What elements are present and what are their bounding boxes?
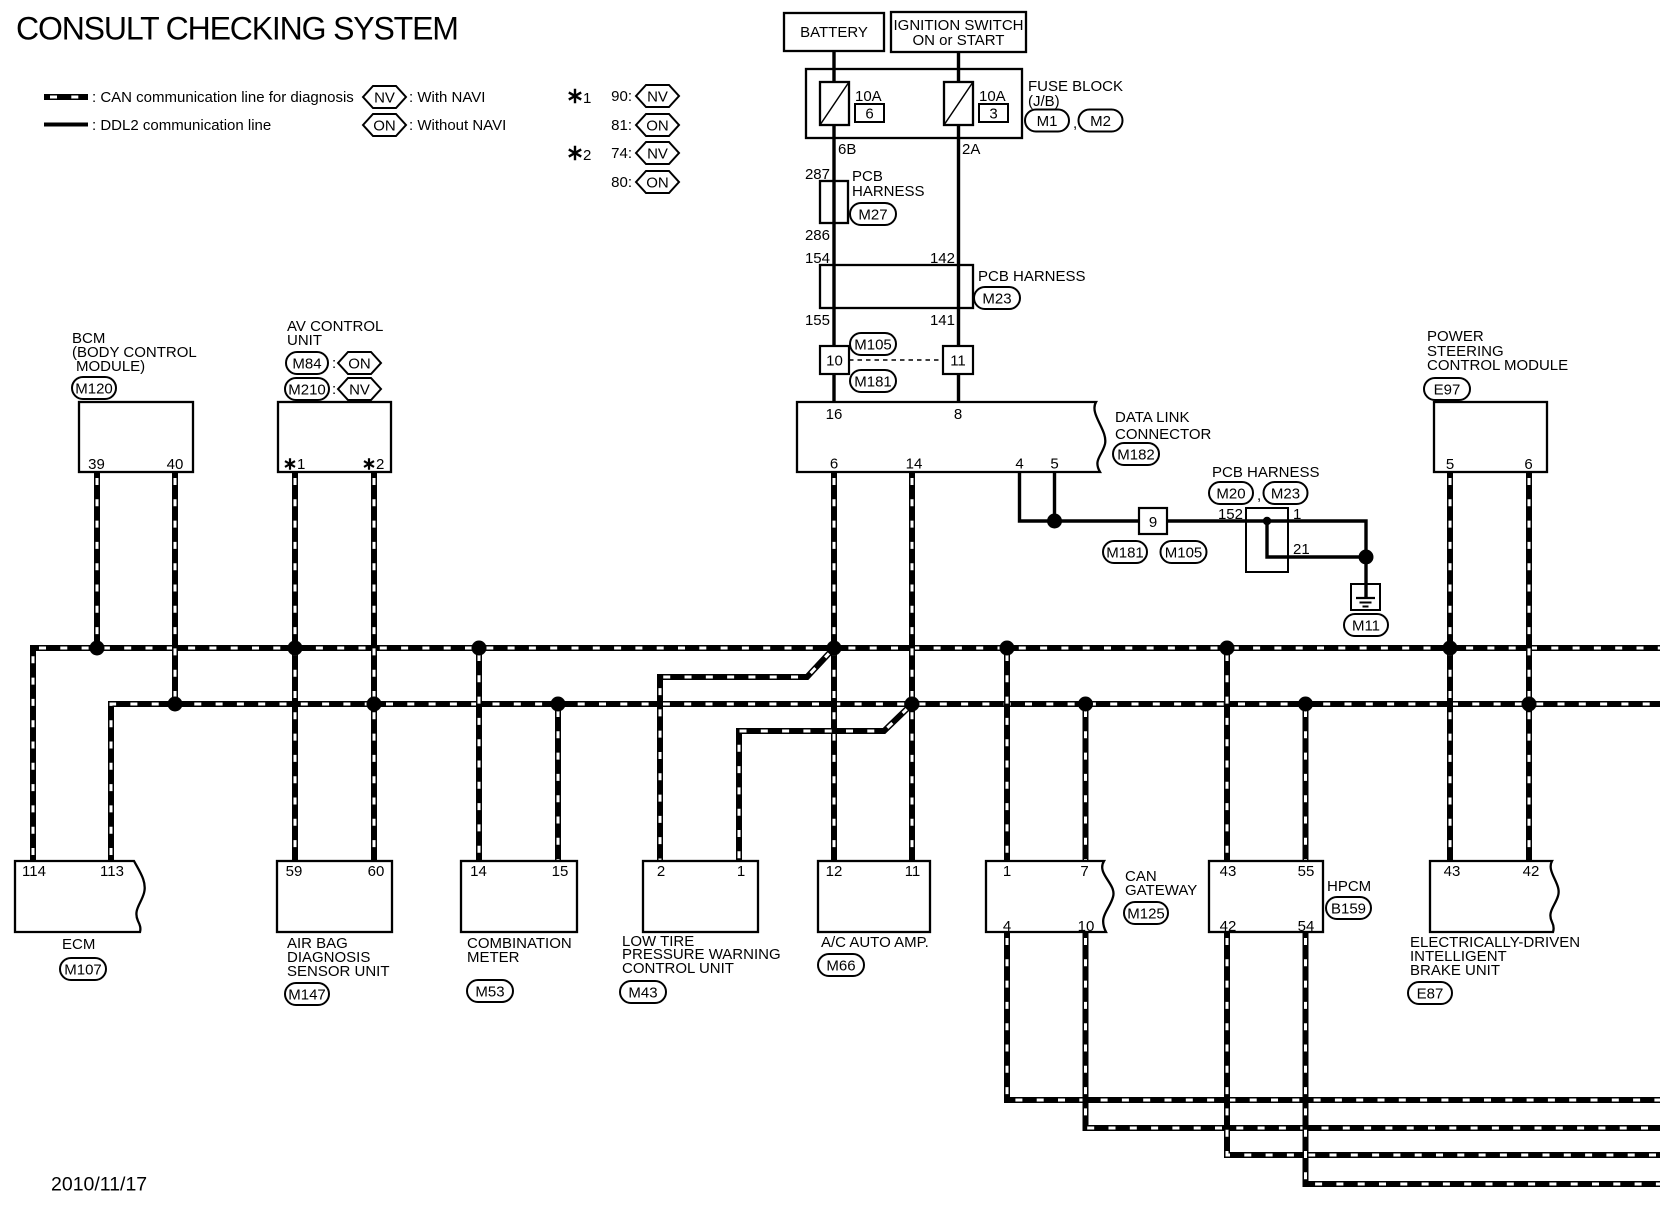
wire PS 5 / BRAKE UNIT 43 [1447, 472, 1453, 861]
connector E87 [1408, 982, 1452, 1004]
svg-text:4: 4 [1003, 918, 1011, 935]
component AIR BAG box [277, 861, 392, 932]
svg-text:M43: M43 [628, 984, 657, 1001]
svg-text:A/C AUTO AMP.: A/C AUTO AMP. [821, 934, 929, 951]
legend sample CAN line [44, 94, 88, 100]
svg-text:12: 12 [826, 863, 843, 880]
svg-text:DATA LINK: DATA LINK [1115, 409, 1189, 426]
junction bus1 DLC6 [827, 641, 842, 656]
svg-text:14: 14 [470, 863, 487, 880]
svg-text:METER: METER [467, 949, 520, 966]
svg-text:2: 2 [583, 147, 591, 164]
svg-text:M20: M20 [1216, 485, 1245, 502]
svg-text:M125: M125 [1127, 905, 1165, 922]
svg-text:MODULE): MODULE) [76, 358, 145, 375]
svg-text:4: 4 [1015, 456, 1023, 473]
svg-text:M182: M182 [1117, 446, 1155, 463]
junction pins 4 and 5 [1047, 514, 1062, 529]
junction bus2 HPCM55 [1298, 697, 1313, 712]
svg-text:: DDL2 communication line: : DDL2 communication line [92, 117, 271, 134]
wire COMBINATION METER 15 [555, 704, 561, 861]
svg-text:E97: E97 [1434, 381, 1461, 398]
wire fuse 6B to connector 10 [832, 125, 835, 346]
svg-text:11: 11 [950, 353, 966, 370]
wire CAN GATEWAY 4 lower [1007, 932, 1660, 1100]
connector M120 [72, 377, 116, 399]
svg-text:5: 5 [1446, 456, 1454, 473]
wire DLC 14 / AC AUTO AMP 11 [909, 472, 915, 861]
svg-text:59: 59 [286, 863, 303, 880]
svg-text:: With NAVI: : With NAVI [409, 89, 485, 106]
svg-text:B159: B159 [1331, 900, 1366, 917]
svg-text:(J/B): (J/B) [1028, 93, 1060, 110]
svg-text:UNIT: UNIT [287, 332, 322, 349]
svg-text:M181: M181 [1106, 544, 1144, 561]
junction bus1 CANGW1 [1000, 641, 1015, 656]
svg-text:NV: NV [374, 89, 395, 106]
svg-text:40: 40 [167, 456, 184, 473]
svg-text::: : [332, 355, 336, 372]
wire LOW TIRE pin 1 branch [739, 704, 912, 861]
CAN bus line 1 [33, 648, 1660, 861]
svg-text:152: 152 [1218, 506, 1243, 523]
svg-text:60: 60 [368, 863, 385, 880]
connector B159 [1326, 897, 1371, 919]
svg-text:BRAKE UNIT: BRAKE UNIT [1410, 962, 1500, 979]
svg-text:: Without NAVI: : Without NAVI [409, 117, 506, 134]
connector M105 [850, 333, 896, 355]
legend symbol ON [363, 114, 406, 136]
svg-text:11: 11 [905, 863, 921, 880]
svg-text:7: 7 [1080, 863, 1088, 880]
svg-text:3: 3 [989, 106, 997, 123]
legend symbol NV [363, 86, 406, 108]
svg-text:6B: 6B [838, 141, 856, 158]
svg-text:ON: ON [646, 117, 669, 134]
svg-text:114: 114 [22, 863, 46, 880]
svg-text:80:: 80: [611, 174, 632, 191]
ground M11 symbol [1351, 584, 1380, 610]
connector M181 [850, 370, 896, 392]
junction inside PCB harness [1263, 517, 1271, 525]
note star 1 [569, 89, 581, 103]
component IGNITION SWITCH [891, 12, 1026, 52]
svg-text:2A: 2A [962, 141, 980, 158]
note hexagon NV 74 [636, 142, 679, 164]
connector E97 [1424, 378, 1470, 400]
junction bus1 COMB14 [472, 641, 487, 656]
component LOW TIRE box [643, 861, 758, 932]
svg-text:9: 9 [1149, 514, 1157, 531]
wire HPCM 43 [1224, 648, 1230, 861]
svg-text:1: 1 [583, 90, 591, 107]
svg-text:CONNECTOR: CONNECTOR [1115, 426, 1212, 443]
svg-text:43: 43 [1444, 863, 1461, 880]
svg-text:M147: M147 [288, 986, 326, 1003]
wire battery to fuse 6 [832, 51, 835, 82]
component BATTERY [784, 13, 884, 51]
wire box 9 through PCB harness to corner [1167, 521, 1366, 557]
connector M27 [850, 203, 896, 225]
AV pin star1 [285, 458, 295, 470]
connector box 9 [1139, 508, 1167, 534]
connector box 10 [820, 346, 849, 374]
svg-text:39: 39 [88, 456, 105, 473]
symbol ON M84 [338, 352, 381, 374]
component ECM box [15, 861, 145, 932]
svg-text:M107: M107 [64, 961, 102, 978]
svg-text:GATEWAY: GATEWAY [1125, 882, 1197, 899]
svg-text:ON: ON [373, 117, 396, 134]
wire CAN GATEWAY 10 lower [1086, 932, 1660, 1128]
symbol NV M210 [338, 378, 381, 400]
wire junction to box 9 [1055, 519, 1140, 522]
connector M43 [620, 981, 666, 1003]
component AC AUTO AMP box [818, 861, 930, 932]
svg-text:M210: M210 [288, 381, 326, 398]
connector M210 [285, 378, 329, 400]
fuse 10A #3 [944, 82, 973, 125]
svg-text:2: 2 [376, 456, 384, 473]
component BCM box [79, 402, 193, 472]
wire to ground M11 [1364, 557, 1367, 597]
svg-text:ECM: ECM [62, 936, 95, 953]
svg-text:CONTROL MODULE: CONTROL MODULE [1427, 357, 1568, 374]
svg-text:CONTROL UNIT: CONTROL UNIT [622, 960, 734, 977]
svg-text:5: 5 [1050, 456, 1058, 473]
legend sample DDL2 line [44, 123, 88, 127]
svg-text:286: 286 [805, 227, 830, 244]
svg-text:NV: NV [647, 145, 668, 162]
svg-text:ON: ON [646, 174, 669, 191]
svg-text:M120: M120 [75, 380, 113, 397]
wire AV pin 2 / AIR BAG 60 [371, 472, 377, 861]
fuse 10A #6 [820, 82, 849, 125]
svg-text:141: 141 [930, 312, 955, 329]
connector M107 [60, 958, 106, 980]
fuse number box 3 [979, 104, 1008, 122]
svg-text:1: 1 [1293, 506, 1301, 523]
junction bus2 COMB15 [551, 697, 566, 712]
component POWER STEERING box [1434, 402, 1547, 472]
wire HPCM 54 lower [1306, 932, 1660, 1184]
svg-text:6: 6 [865, 106, 873, 123]
wire DLC 6 / AC AUTO AMP 12 [831, 472, 837, 861]
svg-text:M23: M23 [1271, 485, 1300, 502]
PCB harness M27 box [820, 181, 848, 223]
svg-text:M84: M84 [292, 355, 321, 372]
svg-text:42: 42 [1523, 863, 1540, 880]
wire BCM pin 40 to bus 2 [172, 472, 178, 704]
svg-text:,: , [1257, 487, 1261, 504]
svg-text:M23: M23 [982, 290, 1011, 307]
note hexagon ON 81 [636, 114, 679, 136]
svg-text:2010/11/17: 2010/11/17 [51, 1174, 147, 1196]
svg-text:M11: M11 [1352, 617, 1380, 634]
wire pin 21 to ground corner [1267, 521, 1366, 557]
wire LOW TIRE pin 2 branch [660, 648, 834, 861]
connector M23 oval [974, 287, 1020, 309]
connector M147 [285, 983, 329, 1005]
connector box 11 [943, 346, 973, 374]
svg-text:55: 55 [1298, 863, 1315, 880]
junction bus1 BCM39 [90, 641, 105, 656]
svg-text:14: 14 [906, 456, 923, 473]
wire HPCM 42 lower [1227, 932, 1660, 1155]
wire CAN GATEWAY 1 [1004, 648, 1010, 861]
component CAN GATEWAY box [986, 861, 1114, 932]
component AV CONTROL UNIT box [278, 402, 391, 472]
dashed link between 10 and 11 [849, 359, 943, 361]
fuse block J/B outline [806, 69, 1022, 138]
svg-text:81:: 81: [611, 117, 632, 134]
svg-text:2: 2 [657, 863, 665, 880]
wire fuse 2A to connector 11 [957, 125, 960, 346]
connector M66 [818, 954, 864, 976]
wire PS 6 / BRAKE UNIT 42 [1526, 472, 1532, 861]
svg-text:NV: NV [349, 381, 370, 398]
svg-text:HPCM: HPCM [1327, 878, 1371, 895]
connector M84 [286, 352, 328, 374]
junction bus2 DLC14 [905, 697, 920, 712]
PCB harness M20 M23 box [1246, 508, 1288, 572]
connector M2 [1079, 110, 1123, 132]
connector M1 [1025, 110, 1069, 132]
svg-text:1: 1 [1003, 863, 1011, 880]
component HPCM box [1209, 861, 1323, 932]
fuse number box 6 [855, 104, 884, 122]
svg-text:54: 54 [1298, 918, 1315, 935]
PCB harness M23 box [820, 265, 973, 308]
AV pin star2 [364, 458, 374, 470]
svg-text:113: 113 [100, 863, 124, 880]
svg-text:16: 16 [826, 406, 843, 423]
svg-text:6: 6 [1524, 456, 1532, 473]
svg-text:10: 10 [826, 353, 843, 370]
svg-text:6: 6 [830, 456, 838, 473]
svg-text:90:: 90: [611, 88, 632, 105]
svg-text:15: 15 [552, 863, 569, 880]
connector M20 [1209, 482, 1253, 504]
note star 2 [569, 146, 581, 160]
connector M125 [1124, 902, 1168, 924]
svg-text:155: 155 [805, 312, 830, 329]
svg-text:M27: M27 [858, 206, 887, 223]
svg-text:PCB HARNESS: PCB HARNESS [1212, 464, 1320, 481]
svg-text:BATTERY: BATTERY [800, 24, 868, 41]
svg-text:21: 21 [1293, 541, 1310, 558]
svg-text::: : [332, 381, 336, 398]
wire BCM pin 39 to bus 1 [94, 472, 100, 648]
wire HPCM 55 [1303, 704, 1309, 861]
svg-text:1: 1 [737, 863, 745, 880]
svg-text:,: , [1073, 115, 1077, 132]
svg-text:ON or START: ON or START [913, 32, 1005, 49]
svg-text:M53: M53 [475, 983, 504, 1000]
connector M105 lower [1161, 541, 1207, 563]
wire CAN GATEWAY 7 [1083, 704, 1089, 861]
svg-text:M105: M105 [854, 336, 892, 353]
note hexagon ON 80 [636, 171, 679, 193]
component COMBINATION METER box [461, 861, 577, 932]
svg-text:M105: M105 [1165, 544, 1203, 561]
svg-text:M2: M2 [1090, 113, 1111, 130]
svg-text:SENSOR UNIT: SENSOR UNIT [287, 963, 390, 980]
connector M11 [1344, 614, 1388, 636]
svg-text:NV: NV [647, 88, 668, 105]
junction bus1 AV1 [288, 641, 303, 656]
svg-text:43: 43 [1220, 863, 1237, 880]
svg-text:HARNESS: HARNESS [852, 183, 925, 200]
svg-text:10A: 10A [979, 88, 1006, 105]
svg-text:E87: E87 [1417, 985, 1444, 1002]
svg-text:42: 42 [1220, 918, 1237, 935]
svg-text:10A: 10A [855, 88, 882, 105]
junction ground branch [1359, 550, 1374, 565]
wire connector 11 to DLC pin 8 [957, 374, 960, 402]
wire COMBINATION METER 14 [476, 648, 482, 861]
svg-text:M1: M1 [1037, 113, 1058, 130]
svg-text:M66: M66 [826, 957, 855, 974]
component DATA LINK CONNECTOR M182 [797, 402, 1105, 472]
junction bus1 PS5 [1443, 641, 1458, 656]
svg-text:: CAN communication line for d: : CAN communication line for diagnosis [92, 89, 354, 106]
wire ignition switch to fuse 3 [957, 52, 960, 82]
junction bus2 AV2 [367, 697, 382, 712]
connector M181 lower [1103, 541, 1147, 563]
junction bus2 BCM40 [168, 697, 183, 712]
connector M182 [1113, 443, 1159, 465]
svg-text:CONSULT CHECKING SYSTEM: CONSULT CHECKING SYSTEM [16, 11, 458, 47]
svg-text:M181: M181 [854, 373, 892, 390]
connector M53 [467, 980, 513, 1002]
note hexagon NV 90 [636, 85, 679, 107]
connector M23 right [1264, 482, 1308, 504]
svg-text:74:: 74: [611, 145, 632, 162]
svg-text:ON: ON [348, 355, 371, 372]
wire DLC pin 5 branch [1053, 472, 1056, 521]
svg-text:10: 10 [1078, 918, 1095, 935]
junction bus1 HPCM43 [1220, 641, 1235, 656]
wire DLC pin 4 branch [1020, 472, 1055, 521]
wire AV pin 1 / AIR BAG 59 [292, 472, 298, 861]
svg-text:PCB HARNESS: PCB HARNESS [978, 268, 1086, 285]
CAN bus line 2 [111, 704, 1660, 861]
junction bus2 PS6 [1522, 697, 1537, 712]
svg-text:8: 8 [954, 406, 962, 423]
svg-text:1: 1 [297, 456, 305, 473]
component BRAKE UNIT box [1430, 861, 1559, 932]
junction bus2 CANGW7 [1078, 697, 1093, 712]
wire connector 10 to DLC pin 16 [832, 374, 835, 402]
